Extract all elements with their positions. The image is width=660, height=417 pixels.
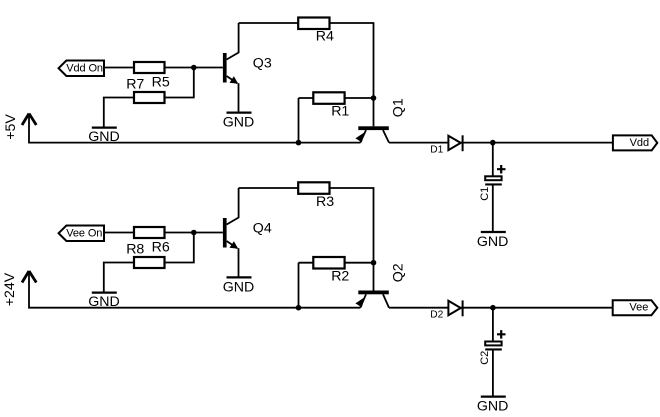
svg-text:Vee On: Vee On bbox=[66, 228, 102, 240]
wire R8 to GND bbox=[104, 263, 134, 293]
svg-text:Vdd On: Vdd On bbox=[66, 63, 103, 75]
svg-text:GND: GND bbox=[88, 129, 120, 145]
wire R2 left branch bbox=[298, 263, 300, 308]
resistor R8 bbox=[134, 257, 165, 268]
svg-text:Q2: Q2 bbox=[391, 263, 407, 282]
net flag Vdd On bbox=[59, 61, 104, 77]
wire C2 top bbox=[492, 308, 494, 342]
ground GND (R8) bbox=[92, 291, 117, 293]
wire C1 bottom bbox=[492, 186, 494, 233]
svg-text:R7: R7 bbox=[126, 76, 144, 92]
resistor R7 bbox=[134, 92, 165, 103]
wire top collector net bbox=[239, 23, 374, 98]
svg-text:Vdd: Vdd bbox=[630, 137, 650, 149]
node Vdd On net junction bbox=[191, 65, 197, 71]
svg-text:Q4: Q4 bbox=[253, 221, 272, 237]
wire +5V rail left bbox=[29, 114, 360, 143]
svg-text:Q1: Q1 bbox=[391, 98, 407, 117]
resistor R1 bbox=[313, 92, 344, 104]
+24V arrow bbox=[22, 271, 36, 283]
svg-text:C2: C2 bbox=[479, 351, 491, 365]
svg-text:Vee: Vee bbox=[629, 301, 648, 313]
transistor Q3 bbox=[223, 23, 272, 113]
node rail-R2 junction bbox=[296, 305, 302, 311]
svg-text:C1: C1 bbox=[479, 187, 491, 201]
svg-text:GND: GND bbox=[223, 114, 255, 130]
wire R2 row bbox=[299, 262, 374, 264]
wire R1 left branch bbox=[298, 98, 300, 143]
wire rail Q1 to Vdd bbox=[389, 142, 613, 144]
transistor Q1 bbox=[355, 98, 406, 142]
wire rail Q2 to Vee bbox=[389, 307, 613, 309]
diode D2 bbox=[430, 300, 462, 320]
svg-text:R1: R1 bbox=[331, 104, 349, 120]
transistor Q2 bbox=[355, 263, 406, 307]
svg-text:R6: R6 bbox=[152, 240, 170, 256]
wire R7 to GND bbox=[104, 98, 134, 128]
wire Vdd On to Q3 base bbox=[104, 67, 223, 69]
node Vee On net junction bbox=[191, 230, 197, 236]
svg-text:GND: GND bbox=[223, 279, 255, 295]
node rail-R1 junction bbox=[296, 140, 302, 146]
wire C1 top bbox=[492, 143, 494, 177]
node Q2 base junction bbox=[371, 260, 377, 266]
capacitor C1 bbox=[479, 165, 505, 201]
node C1 junction bbox=[490, 140, 496, 146]
svg-text:GND: GND bbox=[88, 294, 120, 310]
wire +24V rail left bbox=[29, 271, 360, 308]
svg-text:R2: R2 bbox=[331, 269, 349, 285]
resistor R6 bbox=[134, 227, 165, 238]
svg-text:D2: D2 bbox=[430, 310, 443, 321]
wire Vee On to Q4 base bbox=[104, 232, 223, 234]
capacitor C2 bbox=[479, 330, 505, 365]
svg-text:+24V: +24V bbox=[2, 272, 18, 306]
svg-text:+5V: +5V bbox=[3, 114, 19, 140]
resistor R5 bbox=[134, 62, 165, 73]
node C2 junction bbox=[490, 305, 496, 311]
ground GND (C1) bbox=[481, 231, 506, 233]
svg-text:R4: R4 bbox=[316, 29, 334, 45]
svg-text:Q3: Q3 bbox=[253, 56, 272, 72]
diode D1 bbox=[430, 135, 462, 155]
resistor R4 bbox=[298, 18, 329, 30]
node Q1 base junction bbox=[371, 95, 377, 101]
net flag Vdd bbox=[613, 135, 657, 150]
ground GND (R7) bbox=[92, 126, 117, 128]
wire C2 bottom bbox=[492, 351, 494, 397]
wire R1 row bbox=[299, 97, 374, 99]
net flag Vee On bbox=[59, 226, 104, 242]
ground GND (Q4) bbox=[227, 276, 252, 278]
wire junction to R8 row bbox=[164, 233, 194, 263]
net flag Vee bbox=[613, 300, 658, 315]
svg-text:R8: R8 bbox=[126, 241, 144, 257]
ground GND (C2) bbox=[481, 395, 506, 397]
svg-text:D1: D1 bbox=[430, 145, 443, 156]
wire Q1 base bbox=[373, 98, 375, 126]
svg-text:R3: R3 bbox=[316, 194, 334, 210]
wire top collector net bottom half bbox=[239, 188, 374, 263]
svg-text:R5: R5 bbox=[152, 75, 170, 91]
+5V arrow bbox=[22, 114, 36, 126]
wire junction to R7 row bbox=[164, 68, 194, 98]
svg-text:GND: GND bbox=[477, 398, 509, 414]
svg-text:GND: GND bbox=[477, 234, 509, 250]
wire Q2 base bbox=[373, 263, 375, 291]
resistor R3 bbox=[298, 182, 329, 194]
resistor R2 bbox=[313, 257, 344, 269]
ground GND (Q3) bbox=[227, 111, 252, 113]
transistor Q4 bbox=[223, 188, 272, 277]
